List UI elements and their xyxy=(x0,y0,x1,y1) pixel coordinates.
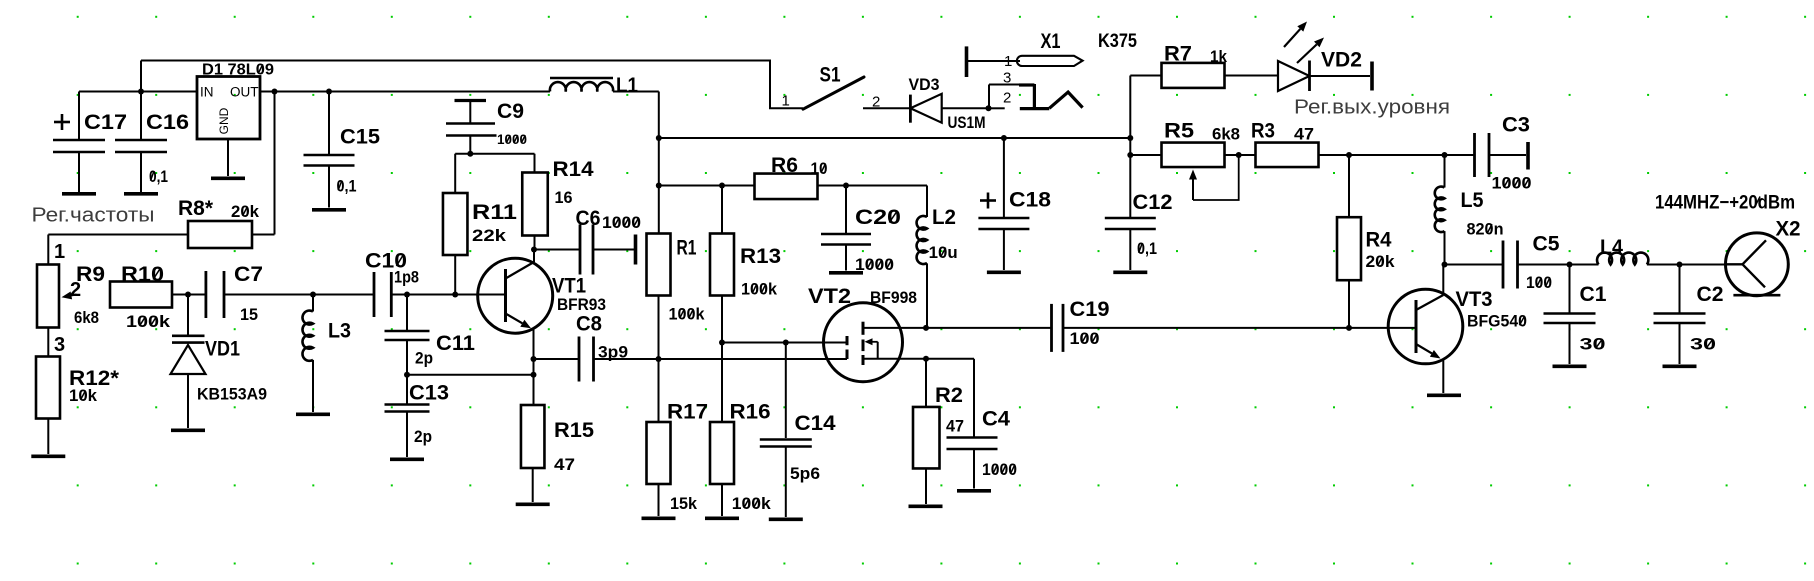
ground C1 xyxy=(1553,364,1587,368)
ground R16 xyxy=(705,516,739,520)
inductor L3 xyxy=(302,295,351,413)
junction R4 bottom xyxy=(1346,325,1352,331)
svg-text:C18: C18 xyxy=(1009,189,1051,212)
capacitor C19 xyxy=(1052,298,1350,352)
switch S1 xyxy=(782,64,865,110)
ground C13 xyxy=(390,457,424,461)
svg-text:VT1: VT1 xyxy=(552,275,586,298)
potentiometer R9 xyxy=(37,235,105,357)
svg-text:47: 47 xyxy=(554,456,575,474)
capacitor C17 xyxy=(53,92,127,193)
wire C8 to VT2 gate2 xyxy=(659,358,848,360)
svg-text:15k: 15k xyxy=(670,495,698,513)
wire to X2 xyxy=(1680,264,1726,266)
connector X1 K375 xyxy=(967,30,1138,109)
resistor R14 xyxy=(522,154,594,250)
svg-text:Рег.вых.уровня: Рег.вых.уровня xyxy=(1294,97,1450,119)
svg-text:1p8: 1p8 xyxy=(394,269,419,287)
svg-text:2p: 2p xyxy=(415,350,433,368)
ground C20 xyxy=(829,271,863,275)
wire L3 to C10 xyxy=(313,294,374,296)
junction supply rail B xyxy=(656,135,662,141)
resistor R4 xyxy=(1337,155,1395,328)
svg-text:VT2: VT2 xyxy=(808,285,851,308)
wire L2 top xyxy=(926,186,928,218)
junction C11/C13 node xyxy=(404,372,410,378)
svg-text:2: 2 xyxy=(1003,89,1011,106)
svg-text:30: 30 xyxy=(1690,336,1716,354)
wire OUT rail xyxy=(260,91,550,93)
svg-text:KB153A9: KB153A9 xyxy=(197,386,267,404)
ground L3 xyxy=(296,412,330,416)
svg-text:20k: 20k xyxy=(1366,253,1396,271)
wire top supply rail xyxy=(141,61,803,109)
svg-text:30: 30 xyxy=(1580,336,1606,354)
svg-text:100k: 100k xyxy=(732,495,772,513)
junction R5 wire xyxy=(1127,152,1133,158)
svg-text:L4: L4 xyxy=(1600,236,1623,259)
svg-text:100k: 100k xyxy=(741,281,778,299)
svg-text:R14: R14 xyxy=(553,158,594,181)
junction C9 bottom xyxy=(467,151,473,157)
junction R1/R17/C8 xyxy=(656,356,662,362)
wire drain to C19 xyxy=(926,327,1051,329)
svg-text:C11: C11 xyxy=(436,332,475,355)
wire L1 to R1 column xyxy=(658,92,660,234)
svg-text:820n: 820n xyxy=(1467,221,1504,239)
junction L3 top xyxy=(310,292,316,298)
svg-text:C8: C8 xyxy=(576,313,602,336)
inductor L2 xyxy=(917,206,958,328)
wire C13 node to emitter xyxy=(407,374,534,376)
capacitor C10 xyxy=(365,250,419,318)
inductor L5 xyxy=(1435,155,1504,265)
svg-text:C12: C12 xyxy=(1133,191,1173,214)
ground C12 xyxy=(1113,270,1147,274)
svg-text:VD1: VD1 xyxy=(205,338,240,361)
wire gate1 xyxy=(722,342,847,344)
svg-text:2: 2 xyxy=(872,93,880,110)
resistor R3 xyxy=(1251,120,1445,168)
svg-text:BF998: BF998 xyxy=(870,289,917,307)
junction C2 top xyxy=(1677,262,1683,268)
capacitor C13 xyxy=(385,375,450,457)
junction C16/IN node xyxy=(138,89,144,95)
svg-text:C1: C1 xyxy=(1580,283,1607,306)
svg-text:16: 16 xyxy=(555,189,573,207)
svg-text:47: 47 xyxy=(946,418,964,436)
svg-text:C17: C17 xyxy=(84,111,127,134)
svg-text:X1: X1 xyxy=(1041,30,1061,53)
junction R8 top xyxy=(272,89,278,95)
svg-text:D1 78L09: D1 78L09 xyxy=(202,62,274,79)
svg-text:R4: R4 xyxy=(1366,229,1392,252)
junction R5 wiper xyxy=(1236,152,1242,158)
capacitor C16 xyxy=(115,92,189,193)
ground R2 xyxy=(909,504,943,508)
inductor L1 xyxy=(550,74,659,97)
svg-text:R5: R5 xyxy=(1164,120,1194,143)
wire to VT3 base xyxy=(1349,327,1416,329)
junction L5/C5/collector xyxy=(1442,262,1448,268)
svg-text:1k: 1k xyxy=(1210,48,1228,66)
capacitor C20 xyxy=(821,186,901,275)
svg-text:VT3: VT3 xyxy=(1456,288,1493,311)
wire emitter to C8 xyxy=(534,358,580,360)
resistor R2 xyxy=(913,359,964,504)
capacitor C4 xyxy=(947,408,1018,489)
ground R15 xyxy=(516,502,550,506)
inductor L4 xyxy=(1570,236,1680,265)
svg-text:R8*: R8* xyxy=(178,197,214,220)
svg-text:S1: S1 xyxy=(820,64,841,87)
svg-text:R6: R6 xyxy=(771,154,798,177)
svg-text:X2: X2 xyxy=(1776,218,1801,241)
junction C14 top xyxy=(783,340,789,346)
svg-text:R17: R17 xyxy=(667,401,708,424)
wire C6 left xyxy=(534,249,580,251)
svg-text:US1M: US1M xyxy=(948,114,986,132)
capacitor C18 xyxy=(978,138,1051,270)
svg-text:C16: C16 xyxy=(146,111,189,134)
junction C15 top xyxy=(326,89,332,95)
wire S1 to VD3 xyxy=(863,93,910,110)
capacitor C11 xyxy=(385,295,476,375)
svg-text:6k8: 6k8 xyxy=(74,309,99,327)
capacitor C1 xyxy=(1544,265,1607,365)
varicap diode VD1 KB153A9 xyxy=(171,295,268,429)
junction C1 top xyxy=(1567,262,1573,268)
svg-text:1: 1 xyxy=(782,93,790,110)
transistor VT3 BFG540 xyxy=(1388,265,1527,394)
label output 144MHZ xyxy=(1655,193,1795,214)
capacitor C5 xyxy=(1445,233,1570,293)
svg-text:BFG540: BFG540 xyxy=(1467,313,1527,331)
junction L5/C3 xyxy=(1442,152,1448,158)
svg-text:R10: R10 xyxy=(121,263,164,286)
svg-text:IN: IN xyxy=(200,85,214,100)
wire rail C to R6 xyxy=(659,185,755,187)
capacitor C6 xyxy=(576,207,642,275)
svg-text:3p9: 3p9 xyxy=(598,344,628,362)
label reg frequency xyxy=(32,205,155,227)
capacitor C7 xyxy=(206,263,313,324)
ground C16 xyxy=(124,192,158,196)
svg-text:L5: L5 xyxy=(1461,189,1484,212)
capacitor C15 xyxy=(304,92,381,208)
junction rail C xyxy=(656,183,662,189)
resistor R11 xyxy=(443,193,517,295)
svg-text:C2: C2 xyxy=(1697,283,1724,306)
connector X2 xyxy=(1726,218,1801,296)
svg-text:R15: R15 xyxy=(554,419,594,442)
junction X1 pin2 corner xyxy=(986,105,992,111)
ground C14 xyxy=(769,517,803,521)
voltage regulator D1 78L09 xyxy=(197,62,274,177)
svg-text:1: 1 xyxy=(54,241,65,263)
svg-text:15: 15 xyxy=(240,306,258,324)
junction source/R2/C4 xyxy=(923,356,929,362)
svg-text:22k: 22k xyxy=(472,227,507,245)
svg-text:R13: R13 xyxy=(740,245,781,268)
svg-text:R1: R1 xyxy=(677,237,697,260)
ground C17 xyxy=(62,192,96,196)
svg-text:6k8: 6k8 xyxy=(1212,126,1240,144)
junction emitter/C8 xyxy=(531,356,537,362)
junction R4 top xyxy=(1346,152,1352,158)
svg-text:R3: R3 xyxy=(1251,120,1275,143)
svg-text:100k: 100k xyxy=(669,306,706,324)
junction C10/C11/base xyxy=(404,292,410,298)
svg-text:BFR93: BFR93 xyxy=(557,296,606,314)
ground D1 xyxy=(211,177,245,181)
svg-text:C19: C19 xyxy=(1070,298,1110,321)
ground C15 xyxy=(312,208,346,212)
svg-text:3: 3 xyxy=(1003,70,1011,87)
svg-text:L2: L2 xyxy=(932,206,956,229)
wire R9 pin3 to R12 xyxy=(47,328,49,357)
junction R10/VD1/C7 xyxy=(185,292,191,298)
potentiometer R5 xyxy=(1130,120,1255,201)
resistor R1 xyxy=(647,234,706,360)
transistor VT1 BFR93 xyxy=(478,250,606,406)
svg-text:GND: GND xyxy=(217,107,231,134)
wire C12 column xyxy=(1129,76,1131,218)
resistor R15 xyxy=(521,405,594,502)
resistor R7 xyxy=(1130,43,1278,88)
svg-text:VD3: VD3 xyxy=(909,76,940,94)
svg-text:C4: C4 xyxy=(982,408,1010,431)
capacitor C12 xyxy=(1105,191,1173,270)
svg-text:R7: R7 xyxy=(1164,43,1192,66)
wire rail to IN xyxy=(79,61,197,92)
capacitor C8 xyxy=(576,313,659,382)
svg-text:3: 3 xyxy=(54,334,65,356)
svg-text:C5: C5 xyxy=(1533,233,1560,256)
junction emitter/C13 wire xyxy=(531,372,537,378)
wire rail B to C12 column xyxy=(659,137,1131,139)
resistor R8* xyxy=(48,92,274,249)
svg-text:VD2: VD2 xyxy=(1321,49,1362,72)
ground C18 xyxy=(987,270,1021,274)
svg-text:100k: 100k xyxy=(126,313,171,331)
svg-text:R11: R11 xyxy=(472,201,517,224)
svg-text:2p: 2p xyxy=(414,428,432,446)
ground R17 xyxy=(642,516,676,520)
svg-text:R2: R2 xyxy=(935,384,963,407)
junction R13 top xyxy=(719,183,725,189)
svg-text:47: 47 xyxy=(1294,126,1314,144)
svg-text:R16: R16 xyxy=(730,401,771,424)
capacitor C3 xyxy=(1445,114,1532,193)
junction R13/R16/C14/gate1 xyxy=(719,340,725,346)
junction R14/C6/collector xyxy=(531,247,537,253)
svg-text:C7: C7 xyxy=(234,263,263,286)
svg-text:C3: C3 xyxy=(1502,114,1530,137)
svg-text:1: 1 xyxy=(1004,53,1012,70)
junction C18 top xyxy=(1001,135,1007,141)
svg-text:C6: C6 xyxy=(576,207,601,230)
resistor R13 xyxy=(710,186,781,343)
LED VD2 xyxy=(1278,22,1370,92)
svg-text:K375: K375 xyxy=(1098,31,1137,52)
diode VD3 US1M xyxy=(909,76,990,132)
svg-text:5p6: 5p6 xyxy=(790,465,820,483)
junction R11 bottom xyxy=(452,292,458,298)
ground VD1 xyxy=(171,428,205,432)
resistor R16 xyxy=(710,343,772,517)
wire C10 to VT1 base xyxy=(407,294,506,296)
junction drain/L2/C19 xyxy=(923,325,929,331)
svg-text:OUT: OUT xyxy=(230,85,259,100)
svg-text:10: 10 xyxy=(811,160,828,178)
capacitor C14 xyxy=(760,343,836,518)
ground C4 xyxy=(957,489,991,493)
capacitor C9 xyxy=(446,100,527,154)
svg-text:Рег.частоты: Рег.частоты xyxy=(32,205,155,227)
resistor R10 xyxy=(110,263,206,331)
svg-text:144MHZ−+20dBm: 144MHZ−+20dBm xyxy=(1655,193,1795,214)
svg-text:C9: C9 xyxy=(497,100,524,123)
svg-text:C15: C15 xyxy=(340,126,380,149)
svg-text:L3: L3 xyxy=(328,320,351,343)
junction rail B / C12 xyxy=(1127,135,1133,141)
ground R12 xyxy=(31,454,65,458)
svg-text:L1: L1 xyxy=(616,74,638,97)
label reg output level xyxy=(1294,97,1450,119)
junction C20 top xyxy=(843,183,849,189)
capacitor C2 xyxy=(1654,265,1724,365)
svg-text:C13: C13 xyxy=(409,382,449,405)
svg-text:C14: C14 xyxy=(795,412,836,435)
svg-text:C20: C20 xyxy=(855,206,901,229)
ground VT3 xyxy=(1427,393,1461,397)
terminal bar VD2 xyxy=(1370,62,1374,91)
wire source to C4 xyxy=(926,359,974,437)
resistor R12* xyxy=(36,357,120,455)
resistor R17 xyxy=(647,359,709,516)
resistor R6 xyxy=(755,154,928,199)
transistor VT2 BF998 xyxy=(808,285,926,382)
ground C2 xyxy=(1663,364,1697,368)
wire C9 node xyxy=(455,154,534,193)
